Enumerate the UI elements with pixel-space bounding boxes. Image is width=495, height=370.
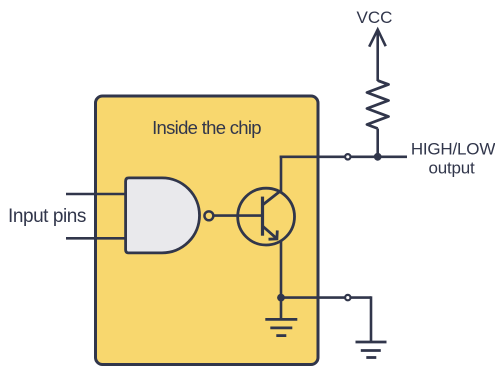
transistor Q1 circle bbox=[238, 188, 295, 245]
ground (external) bbox=[356, 342, 387, 358]
wire: gate output to transistor base bbox=[214, 214, 263, 217]
transistor Q1 emitter stroke bbox=[263, 226, 278, 239]
wire: ground node horizontal bbox=[281, 296, 371, 299]
transistor Q1 collector stroke bbox=[263, 191, 282, 206]
svg-text:output: output bbox=[428, 159, 475, 178]
svg-text:Inside the chip: Inside the chip bbox=[152, 117, 261, 138]
chip body (IC outline) bbox=[96, 96, 319, 365]
VCC arrowhead bbox=[369, 30, 386, 47]
NAND gate U1 body bbox=[126, 178, 200, 253]
ground terminal (open circle) bbox=[345, 295, 350, 300]
wire: chip ground stem bbox=[280, 298, 283, 320]
output terminal (open circle) bbox=[345, 154, 350, 159]
wire: emitter down bbox=[280, 241, 283, 298]
wire: input pin 1 bbox=[66, 193, 126, 196]
resistor R1 bbox=[367, 81, 389, 129]
NAND gate U1 inversion bubble bbox=[204, 211, 213, 220]
wire: input pin 2 bbox=[66, 237, 126, 240]
svg-text:Input pins: Input pins bbox=[8, 206, 86, 227]
wire: VCC shaft bbox=[376, 30, 379, 81]
wire: collector up bbox=[280, 156, 283, 192]
wire: output horizontal bbox=[280, 156, 407, 159]
wire: resistor bottom to node bbox=[376, 129, 379, 157]
wire: external ground drop bbox=[370, 296, 373, 342]
junction: resistor to output node bbox=[374, 153, 382, 161]
transistor Q1 emitter arrowhead bbox=[269, 230, 278, 239]
junction: emitter / ground node bbox=[277, 294, 285, 302]
svg-text:VCC: VCC bbox=[357, 8, 393, 27]
ground (inside chip) bbox=[265, 319, 297, 335]
transistor Q1 base bar bbox=[261, 197, 264, 236]
svg-text:HIGH/LOW: HIGH/LOW bbox=[411, 140, 495, 159]
